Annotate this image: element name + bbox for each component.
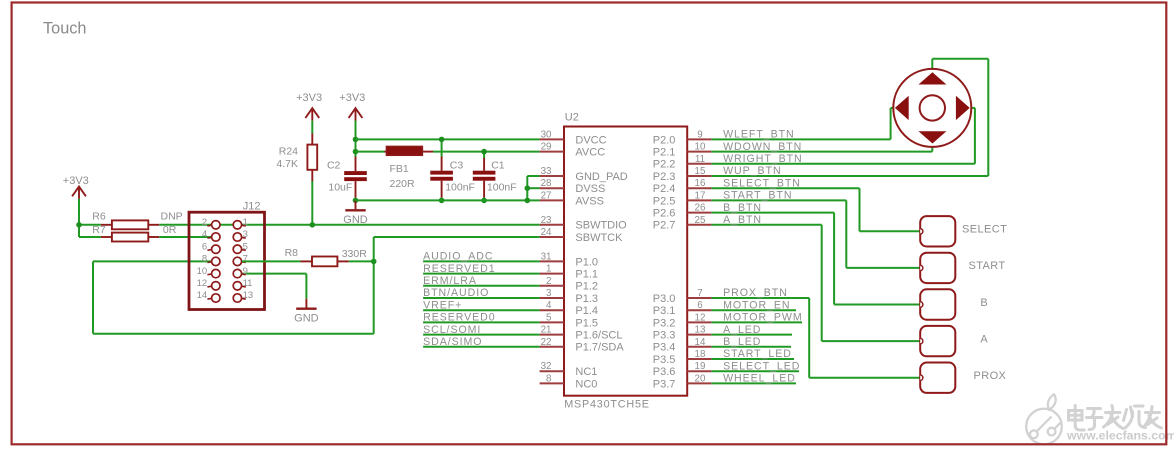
svg-text:PROX: PROX [974, 370, 1007, 382]
watermark chinese text [1069, 406, 1162, 431]
U2 right pin 19 [687, 361, 711, 372]
U2 pin 1 P1.1 [540, 264, 598, 281]
svg-text:6: 6 [697, 300, 703, 311]
wire WLEFT_BTN to D-pad left [891, 108, 894, 139]
power +3V3 (above C2 rail) [339, 92, 365, 121]
svg-text:START: START [969, 260, 1006, 272]
svg-text:5: 5 [243, 241, 248, 252]
U2 right pin 6 [687, 300, 711, 311]
U2 pin 2 P1.2 [540, 276, 598, 293]
svg-text:P2.0: P2.0 [653, 134, 676, 146]
svg-text:330R: 330R [342, 248, 368, 260]
svg-text:7: 7 [243, 254, 248, 265]
junction C1/AVCC rail [481, 149, 487, 155]
J12 pins 8/7 [202, 254, 248, 266]
svg-text:WUP_BTN: WUP_BTN [723, 165, 781, 177]
U2 pin 29 AVCC [540, 142, 606, 159]
resistor R7 0R [92, 224, 176, 242]
net SDA/SIMO [423, 336, 539, 348]
U2 right port names [653, 134, 676, 390]
power +3V3 (left, feeds R6/R7) [63, 175, 89, 199]
U2 right pin 13 [687, 325, 711, 336]
svg-text:C2: C2 [327, 159, 341, 171]
svg-text:NC0: NC0 [575, 378, 597, 390]
connector J12 [189, 200, 265, 309]
junction DVSS tie [525, 185, 531, 191]
svg-text:P1.0: P1.0 [575, 256, 598, 268]
svg-text:P2.6: P2.6 [653, 208, 676, 220]
svg-text:SBWTDIO: SBWTDIO [575, 220, 627, 232]
svg-text:B_BTN: B_BTN [723, 202, 762, 214]
svg-text:P1.7/SDA: P1.7/SDA [575, 342, 624, 354]
svg-text:GND: GND [343, 214, 368, 226]
svg-text:28: 28 [541, 178, 552, 189]
svg-text:5: 5 [546, 312, 552, 323]
svg-text:SELECT: SELECT [962, 224, 1007, 236]
net A_LED [711, 324, 792, 336]
svg-text:33: 33 [541, 166, 552, 177]
push button B [920, 289, 988, 319]
svg-text:AVSS: AVSS [575, 195, 604, 207]
svg-text:R6: R6 [92, 211, 106, 223]
svg-text:220R: 220R [390, 178, 416, 190]
wire +3V3 [78, 199, 80, 225]
svg-text:10uF: 10uF [328, 181, 352, 193]
svg-text:2: 2 [546, 276, 551, 287]
svg-text:R24: R24 [279, 146, 298, 158]
svg-text:START_LED: START_LED [723, 348, 792, 360]
svg-text:14: 14 [695, 337, 706, 348]
op-amp U2 MSP430TCH5E body [564, 111, 687, 410]
net WRIGHT_BTN [711, 153, 975, 165]
svg-text:2: 2 [202, 217, 207, 228]
svg-text:9: 9 [697, 129, 702, 140]
wire FB1 to AVCC pin [433, 151, 540, 153]
svg-text:8: 8 [202, 254, 207, 265]
svg-text:BTN/AUDIO: BTN/AUDIO [423, 287, 489, 299]
wire +3V3 to R24 [311, 132, 313, 134]
svg-text:VREF+: VREF+ [423, 299, 462, 311]
U2 pin 3 P1.3 [540, 288, 598, 305]
svg-text:7: 7 [697, 288, 702, 299]
svg-text:32: 32 [541, 361, 552, 372]
push button SELECT [920, 216, 1007, 246]
ground below C2 [343, 200, 368, 226]
svg-text:22: 22 [541, 337, 552, 348]
svg-text:C3: C3 [450, 159, 464, 171]
J12 pins 12/11 [197, 278, 253, 290]
net A_BTN [711, 214, 821, 226]
U2 right pin 25 [687, 215, 711, 226]
wire net to R6/R7 from +3V3 [79, 224, 101, 226]
svg-text:100nF: 100nF [487, 181, 517, 193]
svg-text:13: 13 [243, 290, 254, 301]
U2 right pin 10 [687, 142, 711, 153]
resistor R6 (DNP) [92, 211, 182, 230]
svg-text:+3V3: +3V3 [63, 175, 89, 187]
U2 right pin 15 [687, 166, 711, 177]
junction R24/SBWTDIO net [310, 222, 316, 228]
svg-text:P2.3: P2.3 [653, 171, 676, 183]
svg-text:30: 30 [541, 129, 552, 140]
svg-text:GND: GND [294, 312, 319, 324]
wire +3V3 vertical into rails [355, 121, 357, 157]
svg-text:A_LED: A_LED [723, 324, 761, 336]
wire AVCC rail to FB1 [356, 151, 385, 153]
junction C1/ground rail [481, 198, 487, 204]
svg-text:P2.1: P2.1 [653, 147, 676, 159]
U2 pin 22 P1.7/SDA [540, 337, 625, 354]
svg-text:P3.6: P3.6 [653, 366, 676, 378]
svg-text:P3.1: P3.1 [653, 305, 676, 317]
svg-text:SDA/SIMO: SDA/SIMO [423, 336, 482, 348]
wire SELECT button feed [860, 188, 921, 231]
U2 pin 27 AVSS [540, 190, 604, 207]
net ERM/LRA [423, 275, 539, 287]
net WUP_BTN [711, 165, 988, 177]
svg-text:P2.5: P2.5 [653, 195, 676, 207]
svg-text:P3.2: P3.2 [653, 317, 676, 329]
capacitor C1 100nF [483, 152, 485, 201]
push button START [920, 253, 1005, 283]
junction +3V3/DVCC rail [353, 137, 359, 143]
wire +3V3 [355, 121, 357, 140]
U2 right pin 18 [687, 349, 711, 360]
U2 pin 33 GND_PAD [540, 166, 628, 183]
svg-text:P2.2: P2.2 [653, 159, 676, 171]
svg-text:31: 31 [541, 251, 552, 262]
svg-text:23: 23 [541, 215, 552, 226]
net AUDIO_ADC [423, 251, 539, 263]
U2 pin 5 P1.5 [540, 312, 598, 329]
svg-text:6: 6 [202, 241, 207, 252]
svg-text:25: 25 [695, 215, 706, 226]
net BTN/AUDIO [423, 287, 539, 299]
svg-text:29: 29 [541, 142, 552, 153]
svg-text:16: 16 [695, 178, 706, 189]
D-pad wheel button S1 [893, 69, 971, 147]
junction C2/ground rail [353, 198, 359, 204]
wire DVCC rail (row1) [356, 138, 540, 140]
svg-text:P1.5: P1.5 [575, 317, 598, 329]
svg-text:P1.4: P1.4 [575, 305, 598, 317]
svg-text:P1.2: P1.2 [575, 281, 598, 293]
net WLEFT_BTN [711, 129, 890, 141]
J12 pins 6/5 [202, 241, 248, 253]
wire A button feed [822, 225, 921, 341]
svg-text:11: 11 [695, 154, 705, 165]
svg-text:R8: R8 [285, 247, 299, 259]
svg-text:J12: J12 [243, 200, 261, 212]
junction +3V3/AVCC rail [353, 149, 359, 155]
svg-text:3: 3 [243, 229, 248, 240]
U2 right pin 9 [687, 129, 711, 140]
svg-text:START_BTN: START_BTN [723, 190, 792, 202]
svg-text:RESERVED0: RESERVED0 [423, 312, 496, 324]
svg-text:4: 4 [546, 300, 552, 311]
svg-text:SELECT_LED: SELECT_LED [723, 360, 800, 372]
svg-text:+3V3: +3V3 [339, 92, 365, 104]
svg-text:AUDIO_ADC: AUDIO_ADC [423, 251, 493, 263]
svg-text:15: 15 [695, 166, 706, 177]
svg-text:ERM/LRA: ERM/LRA [423, 275, 477, 287]
svg-text:SBWTCK: SBWTCK [575, 232, 623, 244]
wire R24 to SBWTDIO net [311, 181, 313, 225]
U2 right pin 7 [687, 288, 711, 299]
wire B button feed [834, 213, 920, 305]
svg-text:FB1: FB1 [390, 163, 409, 175]
svg-text:C1: C1 [491, 159, 505, 171]
U2 pin 8 NC0 [540, 373, 598, 390]
svg-text:DVCC: DVCC [575, 134, 606, 146]
svg-text:U2: U2 [565, 111, 579, 123]
svg-text:P1.6/SCL: P1.6/SCL [575, 330, 622, 342]
U2 right pin 16 [687, 178, 711, 189]
wire J12 pin7 to R8 [242, 260, 301, 262]
wire J12 pin9 to ground [242, 274, 306, 299]
U2 pin 28 DVSS [540, 178, 606, 195]
wire +3V3 [311, 121, 313, 134]
svg-text:NC1: NC1 [575, 366, 597, 378]
svg-text:14: 14 [197, 290, 208, 301]
svg-text:MOTOR_EN: MOTOR_EN [723, 299, 790, 311]
svg-text:24: 24 [541, 227, 552, 238]
svg-text:21: 21 [541, 325, 552, 336]
svg-text:P3.7: P3.7 [653, 378, 676, 390]
wire R6 to J12 pin2/pin1 through to U2 SBWTDIO [159, 224, 539, 226]
J12 pins 4/3 [202, 229, 248, 241]
junction C3/ground rail [439, 198, 445, 204]
svg-text:B: B [980, 297, 988, 309]
net VREF+ [423, 299, 539, 311]
svg-text:WLEFT_BTN: WLEFT_BTN [723, 129, 795, 141]
svg-text:www.elecfans.com: www.elecfans.com [1066, 429, 1174, 443]
push button PROX [920, 363, 1006, 393]
U2 pin 4 P1.4 [540, 300, 598, 317]
svg-text:WHEEL_LED: WHEEL_LED [723, 373, 796, 385]
net MOTOR_PWM [711, 312, 802, 324]
net RESERVED1 [423, 263, 539, 275]
net B_BTN [711, 202, 834, 214]
junction AVSS tie [525, 198, 531, 204]
J12 pins 14/13 [197, 290, 254, 302]
net B_LED [711, 336, 791, 348]
svg-text:17: 17 [695, 190, 706, 201]
svg-text:P3.0: P3.0 [653, 293, 676, 305]
svg-text:13: 13 [695, 325, 706, 336]
U2 pin 24 SBWTCK [540, 227, 624, 244]
net RESERVED0 [423, 312, 539, 324]
svg-text:B_LED: B_LED [723, 336, 761, 348]
junction C3/DVCC rail [439, 137, 445, 143]
U2 right pin 14 [687, 337, 711, 348]
U2 pin 30 DVCC [540, 129, 607, 146]
resistor R8 330R [285, 247, 368, 266]
svg-text:P1.1: P1.1 [575, 269, 598, 281]
svg-text:P2.4: P2.4 [653, 183, 676, 195]
svg-text:MSP430TCH5E: MSP430TCH5E [564, 399, 650, 411]
svg-text:SELECT_BTN: SELECT_BTN [723, 177, 801, 189]
U2 right pin 26 [687, 203, 711, 214]
capacitor C2 10uF [355, 157, 357, 198]
wire J12 pin8 loop to R8 net [93, 261, 374, 333]
svg-text:+3V3: +3V3 [296, 92, 322, 104]
svg-text:4.7K: 4.7K [276, 158, 298, 170]
svg-text:18: 18 [695, 349, 706, 360]
U2 right pin 12 [687, 312, 711, 323]
net PROX_BTN [711, 287, 809, 299]
svg-text:10: 10 [695, 142, 706, 153]
svg-text:P2.7: P2.7 [653, 220, 676, 232]
svg-text:PROX_BTN: PROX_BTN [723, 287, 788, 299]
svg-text:A: A [980, 333, 988, 345]
wire GND tie to GND_PAD/DVSS/AVSS pins [527, 176, 539, 200]
svg-text:19: 19 [695, 361, 706, 372]
ferrite bead FB1 220R [384, 146, 433, 189]
net SELECT_BTN [711, 177, 859, 189]
U2 right pin 17 [687, 190, 711, 201]
net START_BTN [711, 190, 846, 202]
svg-text:RESERVED1: RESERVED1 [423, 263, 496, 275]
wire START button feed [846, 200, 920, 268]
wire WDOWN_BTN to D-pad bottom [931, 147, 933, 152]
svg-text:12: 12 [695, 312, 706, 323]
svg-text:10: 10 [197, 266, 208, 277]
push button A [920, 326, 988, 356]
svg-text:A_BTN: A_BTN [723, 214, 762, 226]
svg-text:MOTOR_PWM: MOTOR_PWM [723, 312, 803, 324]
U2 pin 32 NC1 [540, 361, 598, 378]
svg-text:P3.3: P3.3 [653, 330, 676, 342]
svg-text:Touch: Touch [43, 19, 86, 37]
net SCL/SOMI [423, 324, 539, 336]
svg-text:DVSS: DVSS [575, 183, 605, 195]
svg-text:11: 11 [243, 278, 253, 289]
net START_LED [711, 348, 794, 360]
J12 pins 2/1 [202, 217, 248, 229]
svg-text:9: 9 [243, 266, 248, 277]
svg-text:12: 12 [197, 278, 208, 289]
U2 pin 31 P1.0 [540, 251, 598, 268]
ground below J12 [294, 299, 319, 325]
wire C2 to ground rail [355, 198, 357, 201]
net WHEEL_LED [711, 373, 796, 385]
svg-text:20: 20 [695, 373, 706, 384]
U2 pin 21 P1.6/SCL [540, 325, 623, 342]
svg-text:4: 4 [202, 229, 207, 240]
wire ground rail (row AVSS) [356, 199, 528, 201]
wire WUP_BTN to D-pad top [932, 59, 988, 176]
power +3V3 (above R24) [296, 92, 322, 121]
svg-text:P3.4: P3.4 [653, 342, 676, 354]
junction R8/pin8-loop/SBWTCK [371, 259, 377, 265]
svg-text:GND_PAD: GND_PAD [575, 171, 627, 183]
svg-text:1: 1 [243, 217, 248, 228]
wire R8 to junction [349, 260, 374, 262]
U2 right pin 20 [687, 373, 711, 384]
svg-text:R7: R7 [92, 224, 106, 236]
wire PROX button feed [809, 298, 920, 378]
wire junction up to SBWTCK pin [374, 237, 540, 261]
svg-text:WRIGHT_BTN: WRIGHT_BTN [723, 153, 803, 165]
wire R7 to J12 pin4 [159, 236, 212, 238]
net WDOWN_BTN [711, 141, 932, 153]
wire WRIGHT_BTN to D-pad right [971, 108, 975, 164]
watermark elecfans logo [1026, 394, 1062, 444]
U2 pin 23 SBWTDIO [540, 215, 628, 232]
svg-text:P3.5: P3.5 [653, 354, 676, 366]
J12 pins 10/9 [197, 266, 248, 278]
svg-text:AVCC: AVCC [575, 147, 605, 159]
U2 right pin 11 [687, 154, 711, 165]
resistor R24 4.7K [276, 133, 317, 181]
svg-text:DNP: DNP [161, 211, 183, 223]
svg-text:26: 26 [695, 203, 706, 214]
svg-text:3: 3 [546, 288, 552, 299]
net MOTOR_EN [711, 299, 796, 311]
svg-text:8: 8 [546, 373, 552, 384]
svg-text:SCL/SOMI: SCL/SOMI [423, 324, 481, 336]
svg-text:P1.3: P1.3 [575, 293, 598, 305]
junction at +3V3/R6/R7 [76, 222, 82, 228]
svg-text:100nF: 100nF [445, 181, 475, 193]
capacitor C3 100nF [441, 139, 443, 200]
net SELECT_LED [711, 360, 800, 372]
svg-text:27: 27 [541, 190, 552, 201]
svg-text:WDOWN_BTN: WDOWN_BTN [723, 141, 802, 153]
svg-text:1: 1 [546, 264, 551, 275]
